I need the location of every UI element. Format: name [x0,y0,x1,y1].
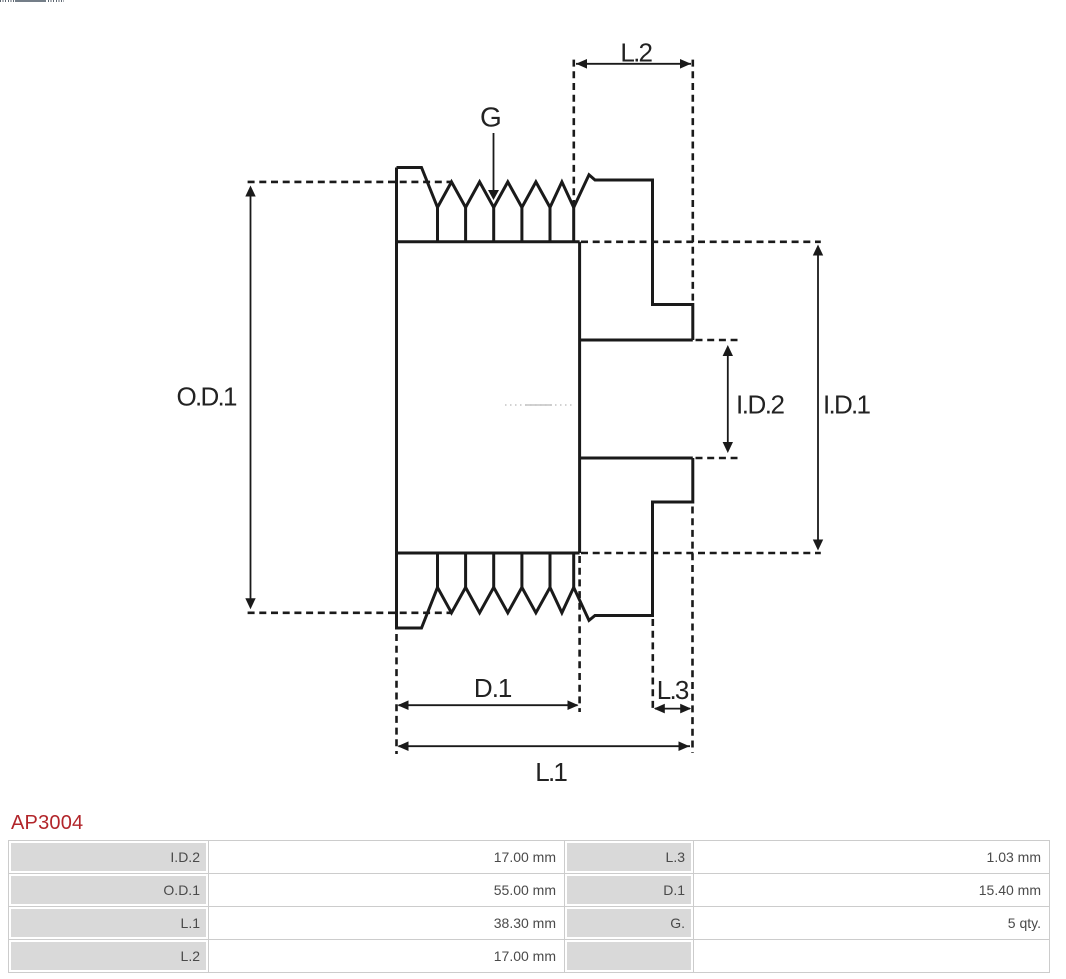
svg-text:G: G [480,101,502,132]
svg-text:L.3: L.3 [657,675,690,705]
svg-text:L.1: L.1 [535,757,568,787]
svg-text:O.D.1: O.D.1 [177,382,238,412]
svg-text:I.D.2: I.D.2 [736,390,785,420]
svg-text:D.1: D.1 [474,673,513,703]
svg-text:I.D.1: I.D.1 [823,390,871,420]
svg-text:L.2: L.2 [620,37,653,67]
